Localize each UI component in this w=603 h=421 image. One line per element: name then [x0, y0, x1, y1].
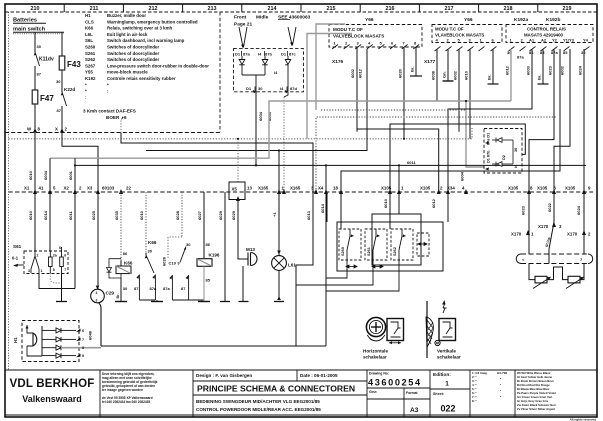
svg-text:87: 87	[181, 286, 186, 291]
svg-text:4: 4	[96, 291, 98, 295]
valveblock box 1	[329, 25, 422, 48]
pinY4 wire 6024	[583, 49, 585, 192]
svg-text:8: 8	[82, 346, 84, 350]
jog wire X2 to 6025	[62, 133, 98, 193]
pin3 wire 6002/6012	[356, 47, 358, 132]
row 9	[42, 353, 76, 358]
svg-text:6013: 6013	[306, 210, 311, 220]
svg-text:6022: 6022	[547, 202, 552, 212]
svg-text:H1: H1	[13, 337, 18, 343]
svg-text:CONTROL RELAIS: CONTROL RELAIS	[527, 27, 566, 32]
pin6 wire Br. ground	[492, 49, 494, 84]
pinA2 wire Br. ground	[542, 49, 544, 84]
design / date row	[196, 373, 338, 378]
svg-text:D1 87b: D1 87b	[487, 150, 491, 163]
svg-text:6: 6	[82, 329, 84, 333]
svg-text:MODU T.C OF: MODU T.C OF	[333, 27, 363, 32]
svg-text:60103: 60103	[102, 186, 115, 191]
svg-text:6004: 6004	[460, 171, 465, 181]
colour code table	[517, 371, 557, 411]
gray bus y158	[50, 101, 511, 158]
pin4 wire 6008	[436, 49, 438, 101]
svg-text:X105: X105	[565, 186, 576, 191]
svg-text:6010: 6010	[28, 210, 33, 220]
svg-text:G3-Y08: G3-Y08	[497, 371, 507, 375]
svg-text:6001: 6001	[68, 170, 73, 180]
extra dashed stub	[417, 233, 429, 256]
pin1 wire 6012 gray	[466, 49, 511, 167]
wire 6028 gray dotted	[181, 192, 183, 237]
TITLE BLOCK	[5, 370, 597, 417]
svg-text:6: 6	[124, 115, 127, 120]
feed from 6035	[120, 261, 122, 267]
wire 6025	[97, 192, 99, 290]
node 87	[61, 106, 63, 133]
svg-text:X170: X170	[538, 224, 549, 229]
bottom pin	[203, 266, 205, 301]
svg-text:6: 6	[59, 246, 61, 250]
dotted gray bus y110	[321, 109, 466, 111]
svg-text:Switches of doorcylinder: Switches of doorcylinder	[107, 57, 160, 62]
CONNECTOR DASHED LINE y192	[9, 191, 594, 193]
arrows double head	[346, 243, 427, 269]
svg-text:X105: X105	[420, 186, 431, 191]
svg-text:CONTROL POWERDOOR MIDLE/REAR A: CONTROL POWERDOOR MIDLE/REAR ACC. EEG200…	[196, 407, 321, 412]
svg-text:X105: X105	[537, 186, 548, 191]
svg-text:87a: 87a	[551, 50, 558, 55]
diode D 87c	[285, 56, 291, 92]
svg-text:Vertikale: Vertikale	[437, 349, 456, 354]
small arrow above	[443, 303, 447, 313]
svg-text:A1: A1	[529, 38, 535, 43]
svg-text:S261: S261	[367, 247, 371, 256]
svg-text:30: 30	[37, 44, 42, 49]
svg-text:87a: 87a	[150, 286, 157, 291]
bus y131.7 pin3	[357, 129, 439, 192]
svg-text:30: 30	[148, 249, 153, 254]
svg-text:schakelaar: schakelaar	[437, 355, 461, 360]
svg-text:X105: X105	[508, 186, 519, 191]
svg-text:S260: S260	[341, 247, 345, 256]
svg-text:86: 86	[206, 242, 211, 247]
svg-text:Horizontale: Horizontale	[363, 349, 388, 354]
terminals 87a 87	[172, 275, 204, 300]
svg-text:PRINCIPE SCHEMA & CONNECTOREN: PRINCIPE SCHEMA & CONNECTOREN	[197, 384, 355, 394]
svg-text:K192: K192	[85, 76, 96, 81]
svg-text:*: *	[85, 82, 87, 87]
pointer arrows	[239, 27, 296, 47]
wire 6011	[74, 192, 76, 289]
svg-text:Front: Front	[234, 15, 247, 21]
pinY1 wire 6002	[554, 49, 570, 192]
svg-text:+1: +1	[272, 212, 277, 217]
svg-text:7: 7	[64, 268, 66, 272]
edition / sheet cell	[433, 372, 456, 414]
internal bus	[41, 326, 43, 356]
svg-text:X165: X165	[290, 186, 301, 191]
wire to terminal W8	[34, 104, 36, 133]
svg-text:S261: S261	[85, 51, 96, 56]
svg-text:D1: D1	[246, 86, 252, 91]
svg-text:K192a: K192a	[514, 17, 528, 23]
svg-text:Br.: Br.	[116, 293, 120, 298]
bottom bus right segment	[296, 345, 326, 347]
svg-text:217: 217	[445, 6, 454, 12]
svg-text:5: 5	[53, 268, 55, 272]
svg-text:6008: 6008	[431, 70, 436, 80]
S262 dashed box	[391, 229, 413, 260]
wire kmh dotted above	[120, 121, 122, 134]
wire X165-1 drop	[278, 151, 280, 193]
svg-text:Sheet:: Sheet:	[433, 392, 444, 396]
header column ticks	[64, 4, 538, 12]
svg-text:CLS: CLS	[85, 19, 94, 24]
resistor right	[568, 276, 580, 283]
row 7	[42, 337, 76, 342]
svg-text:13: 13	[247, 186, 252, 191]
S61 lamp element	[49, 257, 53, 267]
pin2 wire Gn. ground	[447, 49, 449, 81]
svg-text:6012: 6012	[431, 198, 436, 208]
wire 6003 from diode box	[284, 92, 288, 97]
wire 6010 gray dotted	[145, 192, 147, 253]
inner diodes	[492, 138, 513, 167]
svg-text:Br.: Br.	[537, 75, 542, 80]
svg-text:214: 214	[268, 6, 277, 12]
svg-text:6029: 6029	[231, 210, 236, 220]
left inner dotted border	[8, 12, 10, 370]
pin labels 87a 87b 87c	[235, 52, 296, 57]
svg-text:87c: 87c	[289, 52, 296, 57]
svg-text:6010: 6010	[383, 198, 388, 208]
pin8 wire Br. to ground	[415, 47, 417, 76]
pin3 wire 6010	[469, 49, 471, 139]
ground pin8	[410, 75, 422, 77]
svg-text:87a: 87a	[243, 52, 250, 57]
svg-text:Low-pressure switch door-rubbe: Low-pressure switch door-rubber in doubl…	[107, 63, 209, 68]
svg-text:L61: L61	[288, 263, 296, 268]
contact terminals 87 87a	[139, 275, 155, 301]
wire 6029a ground	[220, 301, 230, 303]
svg-text:6027: 6027	[197, 210, 202, 220]
S260 dashed box	[339, 229, 361, 260]
svg-text:6028: 6028	[162, 256, 167, 266]
svg-text:X5: X5	[232, 187, 238, 192]
svg-text:6010: 6010	[28, 170, 33, 180]
pin5 wire 6002	[458, 49, 460, 132]
svg-text:6020: 6020	[398, 68, 403, 78]
svg-text:Date : 06-01-2005: Date : 06-01-2005	[300, 373, 338, 378]
resistor left	[535, 276, 547, 283]
wire 6001 drop	[74, 158, 76, 192]
contact K11dv	[35, 52, 40, 66]
wire X105-1 drop	[398, 165, 400, 192]
svg-text:Format: Format	[406, 391, 418, 395]
svg-text:K66: K66	[124, 261, 133, 266]
svg-text:6010: 6010	[464, 70, 469, 80]
wire 6014	[49, 192, 51, 251]
svg-text:1: 1	[445, 381, 449, 388]
svg-text:S61: S61	[13, 244, 22, 249]
svg-text:3: 3	[96, 299, 98, 303]
svg-text:Gez:: Gez:	[369, 390, 377, 394]
solid box R2	[337, 222, 443, 271]
cylinder to resistor wires	[529, 264, 535, 280]
wire drop to bottom loop	[325, 165, 327, 346]
S61 ground	[61, 273, 63, 302]
svg-text:6024: 6024	[576, 205, 581, 215]
dashed box	[22, 321, 79, 362]
svg-text:1: 1	[41, 269, 43, 273]
svg-text:K66: K66	[148, 240, 157, 245]
svg-text:X: X	[55, 127, 58, 132]
svg-text:6035: 6035	[114, 210, 119, 220]
svg-text:43600254: 43600254	[368, 378, 422, 388]
svg-text:Br.: Br.	[410, 67, 415, 72]
svg-text:tel.040 2082434 fax.040 208243: tel.040 2082434 fax.040 2082435	[102, 400, 150, 404]
header separator dashed line	[5, 11, 597, 13]
svg-text:*: *	[85, 89, 87, 94]
switch body	[435, 319, 456, 346]
svg-text:Y66: Y66	[365, 17, 374, 23]
wire 6029 a	[224, 192, 226, 299]
fuse F47	[32, 90, 38, 104]
svg-text:VALVEBLOCK MASATS: VALVEBLOCK MASATS	[333, 34, 384, 39]
bus y150.5	[146, 49, 367, 151]
svg-text:X165: X165	[258, 186, 269, 191]
dotted gray bus y117	[316, 117, 556, 192]
svg-text:Design : F. van Gisbergen: Design : F. van Gisbergen	[196, 373, 252, 378]
svg-text:Y1/Y3: Y1/Y3	[563, 38, 575, 43]
svg-text:6023: 6023	[548, 65, 553, 75]
svg-text:Y66: Y66	[464, 17, 473, 23]
S61 second element	[60, 257, 64, 267]
pin7 wire 6020	[403, 47, 405, 139]
legend text	[85, 13, 209, 100]
svg-text:*: *	[107, 82, 109, 87]
control relais box	[506, 25, 593, 43]
lamp lower wire and ground	[278, 270, 280, 299]
svg-text:X1: X1	[24, 186, 30, 191]
svg-text:K11dv: K11dv	[39, 57, 54, 63]
svg-text:F43: F43	[67, 60, 81, 69]
svg-text:Midle: Midle	[256, 15, 269, 21]
node 30	[61, 70, 63, 92]
svg-text:6004: 6004	[43, 170, 48, 180]
svg-text:Br.: Br.	[487, 75, 492, 80]
row 8 gray exit	[42, 345, 61, 350]
wire 6035 dotted	[120, 192, 122, 261]
svg-text:S6L: S6L	[85, 38, 93, 43]
wire 18 drop	[340, 192, 342, 229]
svg-text:Exit light in air-lock: Exit light in air-lock	[107, 32, 148, 37]
legend box dashed right edge	[219, 12, 221, 132]
svg-text:H1: H1	[85, 13, 91, 18]
svg-text:main switch: main switch	[13, 27, 46, 33]
svg-text:6048: 6048	[88, 330, 93, 340]
coil box	[197, 259, 212, 267]
svg-text:41: 41	[39, 186, 44, 191]
svg-text:All rights reserved: All rights reserved	[570, 418, 597, 421]
svg-text:L6L: L6L	[85, 32, 93, 37]
svg-text:3 Kmh contact DAF-EFS: 3 Kmh contact DAF-EFS	[83, 109, 136, 114]
legend box dashed bottom edge (bulkhead line)	[5, 132, 220, 134]
staircase outputs	[326, 260, 347, 278]
svg-text:212: 212	[149, 6, 158, 12]
svg-text:A2: A2	[541, 38, 547, 43]
svg-text:86: 86	[123, 251, 128, 256]
bus y171 from Y1Y3 area	[341, 49, 560, 192]
pole with hatch	[426, 301, 428, 358]
svg-text:X177: X177	[424, 59, 436, 65]
svg-text:6002: 6002	[350, 68, 355, 78]
S61 bottom loop	[39, 273, 75, 289]
svg-text:Switch dashboard, incl warning: Switch dashboard, incl warning lamp	[107, 38, 185, 43]
svg-text:6011: 6011	[68, 211, 73, 220]
svg-text:85: 85	[206, 278, 211, 283]
solid box R1	[372, 214, 421, 265]
svg-text:6012: 6012	[358, 68, 363, 78]
svg-text:BEDIENING SWINGDEUR MID/ACHTER: BEDIENING SWINGDEUR MID/ACHTER VLG EEG20…	[196, 399, 320, 404]
svg-text:K196: K196	[209, 253, 220, 258]
svg-text:K66: K66	[85, 26, 94, 31]
switch contact	[31, 251, 39, 273]
C29 circle	[91, 289, 105, 303]
svg-text:X170: X170	[567, 232, 578, 237]
svg-text:X2: X2	[64, 186, 70, 191]
svg-text:9: 9	[178, 262, 180, 266]
L61 LAMP	[272, 256, 287, 271]
svg-text:7: 7	[82, 338, 84, 342]
svg-text:D1: D1	[235, 52, 241, 57]
buzzer symbol	[33, 333, 37, 346]
bus y143	[121, 133, 313, 265]
svg-text:022: 022	[440, 404, 455, 414]
svg-text:Gn.: Gn.	[442, 71, 447, 78]
wire +1 to lamp	[278, 192, 280, 256]
svg-text:Page 21: Page 21	[234, 22, 252, 28]
svg-text:D2: D2	[502, 155, 506, 160]
svg-text:87a: 87a	[517, 55, 524, 60]
wire W8 6010	[34, 133, 36, 193]
svg-text:M13: M13	[246, 247, 255, 252]
svg-text:schakelaar: schakelaar	[363, 355, 387, 360]
wire battery right	[61, 32, 63, 56]
svg-text:A3: A3	[410, 407, 419, 414]
output 30	[255, 75, 257, 92]
gray dotted bus y139	[9, 128, 473, 139]
svg-text:Switches of doorcylinder: Switches of doorcylinder	[107, 45, 160, 50]
cylinder capsule	[516, 254, 593, 264]
svg-text:18: 18	[333, 186, 338, 191]
bus joining 87a 87b	[242, 74, 265, 76]
svg-text:Valkenswaard: Valkenswaard	[22, 394, 82, 404]
svg-text:Y4: Y4	[583, 38, 589, 43]
svg-text:2: 2	[37, 254, 39, 258]
svg-text:6029: 6029	[218, 210, 223, 220]
svg-text:211: 211	[90, 6, 99, 12]
svg-text:6010: 6010	[139, 210, 144, 220]
BOTTOM BUS	[101, 345, 296, 347]
svg-text:219: 219	[563, 6, 572, 12]
svg-text:MODU T.C OF: MODU T.C OF	[435, 27, 464, 32]
svg-text:6028: 6028	[175, 210, 180, 220]
wire X105-1 into R1	[398, 192, 400, 214]
svg-text:210: 210	[31, 6, 40, 12]
svg-text:87: 87	[134, 286, 139, 291]
svg-text:C19: C19	[169, 261, 177, 266]
svg-text:3: 3	[28, 269, 30, 273]
svg-text:BOER: BOER	[106, 115, 120, 120]
wire 6004 from diode box	[255, 92, 257, 166]
svg-text:85: 85	[563, 50, 568, 55]
svg-text:87a: 87a	[163, 286, 170, 291]
diode D 87a	[239, 56, 245, 75]
node 87	[34, 66, 36, 90]
svg-text:216: 216	[386, 6, 395, 12]
svg-text:30: 30	[514, 148, 518, 152]
pinY2 wire 6023	[529, 49, 554, 192]
svg-text:S262: S262	[85, 57, 96, 62]
svg-text:D1: D1	[281, 52, 287, 57]
svg-text:Drawing No:: Drawing No:	[369, 372, 389, 376]
svg-text:0-1: 0-1	[12, 256, 19, 261]
svg-text:Controle relais sensitivity ru: Controle relais sensitivity rubber	[107, 76, 176, 81]
svg-text:Batteries: Batteries	[13, 18, 37, 24]
small diode box dashed	[484, 129, 522, 174]
numbered list cell	[472, 371, 507, 403]
wire 6029 b	[238, 200, 248, 260]
svg-text:87d: 87d	[290, 86, 297, 91]
pins 1 2 A1 A2 Y2 Y1/Y3 Y4	[510, 38, 589, 43]
S261 dashed box	[365, 229, 387, 260]
bottom labels D1 30 / I4 87d	[246, 86, 297, 91]
pins 1-8	[334, 41, 418, 46]
svg-text:X3: X3	[87, 186, 93, 191]
svg-text:6012: 6012	[505, 65, 510, 75]
svg-text:K22d: K22d	[64, 87, 75, 92]
svg-text:87: 87	[37, 72, 42, 77]
svg-text:30: 30	[56, 79, 61, 84]
sub labels 30 87a 86 85 87a 85 30	[507, 50, 586, 60]
svg-text:X170: X170	[511, 232, 522, 237]
junction dots	[74, 100, 467, 167]
gray corner stub top 2	[316, 24, 345, 110]
company name	[9, 378, 94, 404]
HORIZONTAL SWITCH ICON	[366, 317, 403, 342]
svg-text:Y55: Y55	[85, 70, 93, 75]
wire 6004 drop	[49, 158, 51, 192]
valveblock box 2	[432, 25, 502, 43]
svg-text:C29: C29	[106, 291, 115, 296]
connector labels left	[24, 186, 591, 192]
pinA1 wire 6003	[448, 49, 532, 222]
svg-text:22: 22	[126, 186, 131, 191]
svg-text:Buzzer, midle door: Buzzer, midle door	[107, 13, 146, 18]
contact K22d	[62, 92, 67, 106]
svg-text:87: 87	[57, 108, 62, 113]
svg-text:6014: 6014	[43, 210, 48, 220]
diode D 87b	[262, 56, 268, 75]
svg-text:X4: X4	[318, 186, 324, 191]
wire 6014 right	[326, 192, 328, 222]
wire 6010 drop	[389, 192, 391, 229]
wire 6027	[203, 192, 205, 258]
C19 CONTACT	[168, 237, 182, 258]
gray dotted curve below S61	[50, 273, 61, 283]
X5 connector box	[229, 182, 245, 200]
bus y165	[75, 164, 586, 166]
